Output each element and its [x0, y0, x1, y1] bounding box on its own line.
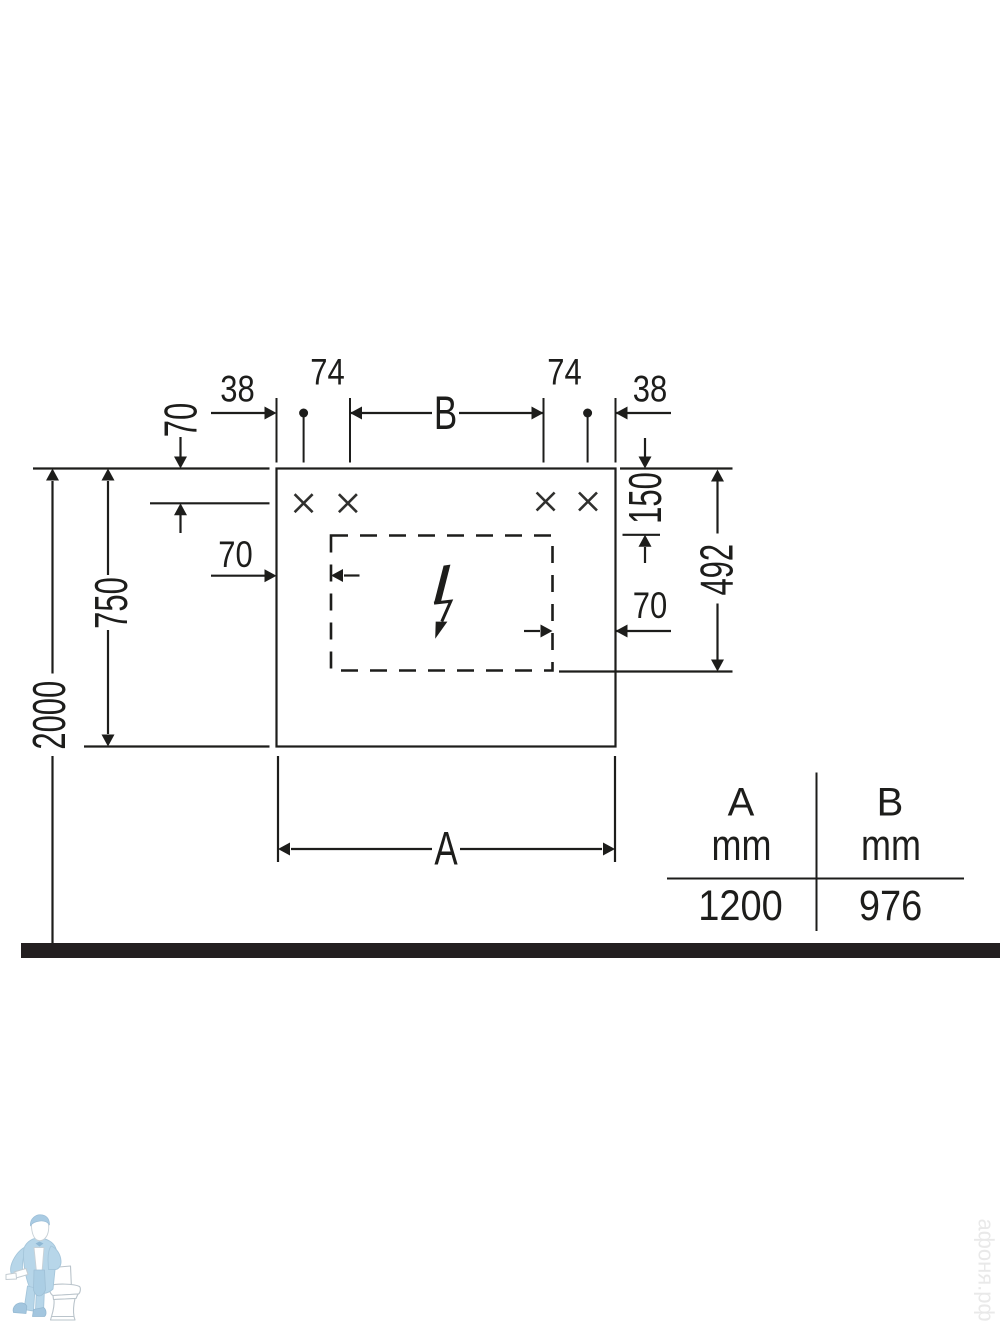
svg-text:mm: mm — [712, 822, 772, 870]
svg-text:1200: 1200 — [698, 881, 783, 930]
svg-text:A: A — [434, 821, 458, 874]
svg-text:афоня.рф: афоня.рф — [974, 1219, 999, 1322]
svg-text:B: B — [434, 386, 457, 439]
svg-text:750: 750 — [86, 577, 138, 629]
svg-text:B: B — [877, 780, 904, 824]
svg-text:74: 74 — [310, 352, 344, 393]
svg-text:150: 150 — [620, 472, 672, 524]
svg-text:A: A — [728, 780, 755, 824]
svg-text:38: 38 — [220, 369, 254, 410]
svg-text:70: 70 — [633, 585, 667, 626]
svg-text:70: 70 — [218, 534, 252, 575]
svg-text:38: 38 — [633, 369, 667, 410]
svg-text:74: 74 — [547, 352, 581, 393]
svg-text:mm: mm — [861, 822, 921, 870]
svg-text:492: 492 — [691, 544, 743, 596]
svg-text:2000: 2000 — [24, 681, 76, 750]
svg-text:976: 976 — [859, 881, 922, 930]
svg-text:70: 70 — [155, 403, 207, 437]
